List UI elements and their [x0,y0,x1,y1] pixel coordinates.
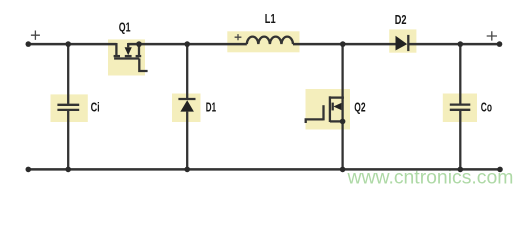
junction dot input+ top [26,41,32,47]
junction dot Q2 drain rail [340,41,346,47]
svg-text:D2: D2 [395,12,407,27]
highlight box L1 [227,31,299,52]
junction dot output+ top [497,41,503,47]
label D1 [206,100,216,115]
wire bottom rail [28,168,500,171]
junction dot Q2 bottom [340,167,346,173]
node + output positive terminal [487,31,497,40]
wire D1 branch lower [186,112,188,170]
label Q2 [354,100,365,115]
svg-text:L1: L1 [265,11,276,26]
wire top rail: D2 to output+ [408,43,499,46]
watermark www.cntronics.com [347,167,514,189]
svg-text:Co: Co [481,100,492,115]
junction dot bottom right end [497,167,503,173]
wire top rail: Q1 to L1 [128,43,247,46]
junction dot D1 top [184,41,190,47]
capacitor Ci [57,105,79,110]
junction dot Ci bottom [65,167,71,173]
wire top rail: input+ to Q1 drain [28,43,116,46]
diode D1 [178,99,195,112]
wire Ci branch lower [67,111,69,169]
highlight box D1 [172,94,201,123]
junction dot Ci top [65,41,71,47]
node + inductor L1 left polarity mark [235,34,242,40]
transistor Q2 [306,96,344,123]
highlight box Ci [51,94,88,122]
junction dot Co bottom [458,167,464,173]
wire Q2 branch (drain lead through source to bottom rail) [341,44,343,169]
label Q1 [119,19,131,34]
svg-text:Ci: Ci [91,100,100,115]
capacitor Co [450,105,471,110]
junction dot Q2 source [340,119,346,125]
highlight box D2 [389,29,416,52]
wire top rail: L1 to D2 [293,43,396,46]
label Co [481,100,492,115]
svg-text:Q1: Q1 [119,19,131,34]
label L1 [265,11,276,26]
junction dot Co top [458,41,464,47]
wire D1 branch upper [186,44,188,99]
junction dot bottom left end [26,167,32,173]
transistor Q1 [114,43,148,71]
label D2 [395,12,407,27]
wire Co branch lower [459,111,461,170]
node + input positive terminal [31,31,40,40]
highlight box Co [443,94,477,123]
diode D2 [396,35,409,51]
junction dot Q1 source rail [136,41,142,47]
label Ci [91,100,100,115]
wire Ci branch upper [67,44,69,104]
wire Co branch upper [459,44,461,104]
svg-text:Q2: Q2 [354,100,365,115]
highlight box Q2 [306,89,351,130]
junction dot D1 bottom [184,167,190,173]
inductor L1 [247,37,293,44]
svg-text:D1: D1 [206,100,216,115]
highlight box Q1 [108,39,145,75]
